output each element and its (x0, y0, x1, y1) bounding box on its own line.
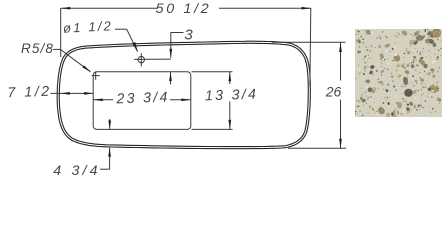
granite swatch (355, 27, 443, 120)
svg-text:23 3/4: 23 3/4 (115, 90, 170, 108)
svg-text:26: 26 (325, 84, 342, 100)
svg-text:4 3/4: 4 3/4 (53, 163, 101, 179)
dimension 26 (272, 42, 346, 148)
faucet hole circle (138, 56, 144, 62)
svg-text:ø1 1/2: ø1 1/2 (63, 18, 114, 36)
leader R5/8 (53, 49, 91, 71)
dimension 23 3/4 (93, 99, 191, 101)
svg-text:3: 3 (184, 27, 193, 44)
dimension 3 callout (171, 33, 184, 85)
cutout corner radius center mark (92, 72, 100, 80)
sink cutout rectangle (93, 72, 191, 130)
svg-text:7 1/2: 7 1/2 (7, 84, 52, 102)
svg-text:R5/8: R5/8 (21, 41, 54, 56)
leader dia 1 1/2 (115, 29, 138, 51)
faucet hole crosshair (134, 58, 171, 60)
dimension 50 1/2 (61, 8, 311, 86)
dimension 7 1/2 (50, 92, 93, 94)
dimension 4 3/4 callout (100, 119, 110, 169)
svg-text:13 3/4: 13 3/4 (205, 87, 259, 105)
svg-text:50 1/2: 50 1/2 (156, 1, 212, 17)
countertop outline (double line) (57, 41, 310, 149)
dimension 13 3/4 (192, 72, 233, 130)
